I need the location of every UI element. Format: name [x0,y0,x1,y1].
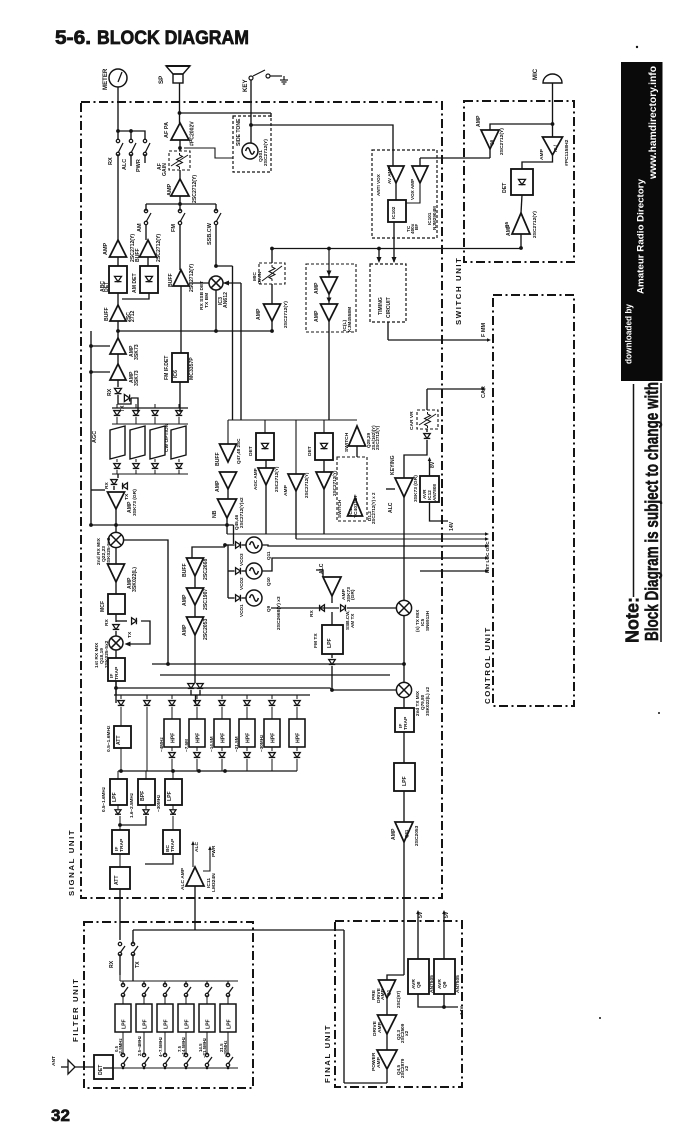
block LPF f2 [143,995,145,1004]
wire long 688 [116,688,332,690]
svg-text:DET: DET [502,182,508,193]
svg-text:MCF: MCF [100,601,106,612]
amp Q33 [110,240,127,257]
svg-text:3SK022(L): 3SK022(L) [132,567,138,592]
svg-text:2SC2053: 2SC2053 [414,825,420,846]
wire nb bus 525 [91,524,234,526]
svg-text:IC102: IC102 [391,206,396,219]
diode vco row [236,542,241,549]
svg-text:NJM2904M: NJM2904M [432,206,437,230]
wire hpf bottom bus [118,770,297,772]
amp Q31 [110,338,126,354]
switch filter out 2 [142,1053,149,1066]
dashed box anti vox [372,150,437,238]
amp VOX [412,166,428,183]
wire ic6 out [179,382,181,412]
wire het bus 664 [152,663,404,665]
svg-text:SP: SP [158,76,165,84]
switch tx filter [132,930,134,944]
svg-text:DET: DET [98,1064,104,1075]
svg-text:GAIN: GAIN [162,163,168,176]
svg-text:2SC2712(Y): 2SC2712(Y) [263,139,269,166]
svg-text:Block Diagram is subject to ch: Block Diagram is subject to change with [642,382,662,641]
wire switch merge [144,154,146,163]
svg-text:ATT: ATT [116,735,122,745]
amp Q74 mic [271,284,273,304]
svg-text:5V: 5V [444,911,450,918]
svg-text:AM TX: AM TX [350,613,355,628]
svg-text:#PC1158H2: #PC1158H2 [564,139,570,166]
diode rx tx 2 [117,474,119,478]
switch filter 1 [122,981,124,985]
svg-text:CONTROL UNIT: CONTROL UNIT [483,626,492,704]
svg-text:3SK73 (GR): 3SK73 (GR) [413,475,419,502]
svg-text:ALC AMP: ALC AMP [180,867,186,890]
switch ALC [129,139,136,155]
amp AF PA [171,123,189,140]
osc VCO2 [246,563,262,579]
svg-text:2SC2712(Y) x 2: 2SC2712(Y) x 2 [371,492,376,524]
resistor CAR VR [426,389,428,410]
amp Q36 buff [173,270,189,286]
svg-text:AMP: AMP [256,308,262,320]
svg-text:~21.5MHz: ~21.5MHz [202,1037,207,1058]
svg-text:14V: 14V [459,1006,465,1015]
wire avr 5v b [443,913,445,959]
wire junction bus 331 [117,321,119,338]
block HPF 5 [271,695,273,699]
svg-text:~21.5M: ~21.5M [234,736,239,752]
svg-text:AMP: AMP [215,480,221,492]
wire filter top bus [119,954,121,975]
key jack [249,70,282,80]
svg-text:BF: BF [414,224,419,230]
svg-text:ANT: ANT [51,1056,57,1066]
svg-text:BUFF: BUFF [215,452,221,466]
svg-text:BLOCK DIAGRAM: BLOCK DIAGRAM [97,27,249,49]
amp Q86 keying [395,478,413,497]
amp IC1 mic [543,137,563,155]
svg-text:VCO2: VCO2 [239,577,244,590]
block IC102 [395,182,397,200]
svg-text:3SK73: 3SK73 [134,344,140,360]
svg-text:TIMING: TIMING [378,297,384,315]
svg-text:2.5~4MHz: 2.5~4MHz [137,1035,142,1056]
svg-text:SN6913H: SN6913H [425,610,430,631]
wire cluster top bus [228,419,357,421]
svg-text:VOX AMP: VOX AMP [410,179,415,200]
svg-text:Q6: Q6 [489,139,494,146]
block BPF [145,771,147,779]
svg-text:AMP: AMP [182,594,188,606]
control unit border [493,295,574,706]
block timing circuit [370,264,406,322]
svg-text:ALC: ALC [388,502,394,513]
svg-text:~14.5M: ~14.5M [209,736,214,752]
wire if trap down [115,681,117,703]
osc VCO3 [246,537,262,553]
amp Q6 [481,130,499,149]
svg-text:AN7808: AN7808 [432,484,437,501]
svg-text:2SC2053: 2SC2053 [203,619,209,640]
svg-text:TX: TX [124,493,130,500]
svg-text:HPF: HPF [296,733,302,743]
switch filter out 6 [226,1053,233,1066]
svg-text:KEY: KEY [242,79,249,92]
svg-text:BUFF: BUFF [104,307,110,321]
svg-text:IC.(: IC.( [553,144,558,152]
svg-text:TRAP: TRAP [114,666,120,680]
wire q6 top [490,124,553,130]
block AVR IC12 AN7808 [420,476,439,502]
wire q5 to mic gain line [272,234,521,249]
svg-text:2SC2712(Y): 2SC2712(Y) [304,472,309,498]
svg-text:HET LOC OSC: HET LOC OSC [485,541,490,573]
svg-text:KEYING: KEYING [390,455,396,475]
block MCF [115,582,117,594]
final unit border [335,921,462,1087]
amp Q37 AF [171,179,189,196]
svg-text:CW OPTION: CW OPTION [164,423,170,452]
wire avr bottom [418,994,458,1007]
speaker SP [166,66,190,83]
wire to tx mix1 [347,607,396,609]
wire buff feed [192,547,225,558]
wire left col down [115,681,117,695]
block IF TRAP [115,650,117,658]
svg-text:TRAP: TRAP [170,838,176,852]
wire alc amp down [194,886,196,930]
svg-text:RX: RX [108,157,114,165]
note underline [633,384,635,597]
block IF TRAP tx [403,697,405,708]
dashed box side tone [233,116,271,172]
amp Q1 pre drive [387,975,404,980]
amp switch tri [349,426,366,446]
svg-text:~30MHz: ~30MHz [156,794,161,812]
svg-text:MIC: MIC [532,68,539,80]
amp Q5 [521,195,522,213]
svg-text:VCO1: VCO1 [239,604,244,617]
svg-text:AF PA: AF PA [164,122,170,138]
switch filter 6 [227,981,229,985]
wire sidetone to af [180,112,272,114]
diode row above agc [112,407,188,409]
svg-text:AMP: AMP [377,1021,383,1033]
svg-text:Q9: Q9 [266,605,271,612]
dashed box mic gain [259,263,285,284]
wire afpa [179,140,181,151]
wire avr 8v [429,460,431,476]
svg-text:HPF: HPF [221,733,227,743]
mic connector [543,74,562,83]
svg-text:MC3357P: MC3357P [189,357,195,380]
amp Q2 Q3 drive [386,998,388,1015]
svg-text:2SC2668: 2SC2668 [203,559,209,580]
amp ALC IC11 [145,854,173,864]
svg-text:2SC2712(Y): 2SC2712(Y) [192,175,198,203]
switch filter out 1 [121,1053,128,1066]
osc side tone [242,143,258,159]
svg-text:BUFF: BUFF [168,273,174,287]
svg-text:ALC: ALC [122,159,128,170]
wire afgain [179,170,181,179]
svg-text:AMP: AMP [182,624,188,636]
osc VCO1 [246,590,262,606]
wire ic3 top branch [216,265,233,267]
mixer 1st RX MIX [109,636,123,650]
signal unit border [81,102,442,898]
svg-text:LPF: LPF [206,1019,212,1029]
wire lpf to bus [332,666,396,690]
svg-text:~4MHz: ~4MHz [159,737,164,752]
block FM IF DET IC6 [180,286,182,353]
wire meter [117,87,119,131]
svg-text:BUFF: BUFF [135,248,141,262]
mixer 2nd RX MIX [108,532,123,547]
svg-text:KJM4558M: KJM4558M [347,307,353,332]
svg-text:RX: RX [309,609,315,617]
switch filter out 4 [184,1053,191,1066]
svg-text:AGC AMP: AGC AMP [253,468,258,490]
wire final out [344,1082,387,1084]
wire mix2 out right [123,540,168,664]
wire bus 695 diodes [114,694,310,696]
amp Q21 [115,547,117,564]
svg-text:SIGNAL UNIT: SIGNAL UNIT [67,829,76,896]
switch filter out 3 [163,1053,170,1066]
dashed box KJM4558N [306,264,356,332]
svg-text:TRAP: TRAP [403,716,409,730]
wires cluster verticals [265,460,267,468]
svg-text:2SC2712(Y): 2SC2712(Y) [375,425,380,450]
wire q15 down [194,605,196,617]
svg-text:~14.5MHz: ~14.5MHz [181,1036,186,1057]
svg-text:~30MHz: ~30MHz [259,734,264,752]
switch filter 2 [143,981,145,985]
wire q81 to final [403,842,405,975]
svg-text:Q11: Q11 [266,551,271,560]
switch filter out 5 [205,1053,212,1066]
svg-text:SWITCH: SWITCH [337,499,342,518]
wire het bus 675 [160,674,390,676]
block LPF b [172,771,174,779]
svg-text:LPF: LPF [164,1019,170,1029]
amp Q47 [220,472,237,489]
wire ic1 to det [522,155,553,169]
svg-text:AN7505: AN7505 [455,975,461,993]
svg-text:SSB.CW: SSB.CW [207,222,213,245]
block HPF 2 [196,695,198,699]
svg-text:ALC: ALC [319,563,325,574]
svg-text:SIDE TONE: SIDE TONE [236,118,242,146]
amp Q78 alc [323,577,341,596]
svg-text:CIRCUIT: CIRCUIT [386,296,392,318]
svg-text:downloaded by: downloaded by [624,304,634,364]
meter M1 [109,69,127,87]
block BC TRAP [163,830,180,854]
mixer 1st TX MIX IC5 [396,600,411,615]
svg-text:CAR: CAR [481,386,487,398]
amp Q4 Q5 power [386,1034,388,1050]
svg-text:HPF: HPF [246,733,252,743]
wire alc arrows [192,845,194,867]
svg-text:AV AMP: AV AMP [387,167,392,184]
svg-text:3SK73 (GR): 3SK73 (GR) [132,489,138,516]
svg-text:LPF: LPF [122,1019,128,1029]
svg-text:SWITCH UNIT: SWITCH UNIT [454,256,463,325]
block LPF f3 [164,995,166,1004]
wire side tone out [184,148,233,158]
svg-text:F MM: F MM [481,323,487,337]
wire FMM line [388,339,487,341]
svg-text:PWR: PWR [211,845,217,857]
svg-text:TX BM: TX BM [204,293,210,308]
wire third line to control [420,570,486,572]
svg-text:0.5~1.6MHz: 0.5~1.6MHz [101,786,106,812]
amp Q30 [110,364,126,380]
wire mic line to timing [378,249,380,259]
wire ic3 down [215,290,217,331]
wire amdet out [122,293,149,299]
svg-text:RX: RX [104,481,110,489]
amp Q13 buff [187,558,204,576]
svg-text:2SC(97): 2SC(97) [396,990,401,1008]
svg-text:2SC2668(Y) x3: 2SC2668(Y) x3 [276,596,282,630]
wire bus 534 539 [227,533,486,535]
wire key branch to anti vox [251,125,393,166]
svg-text:DET: DET [307,446,313,456]
svg-text:CAR VR: CAR VR [409,411,415,430]
svg-text:FILTER UNIT: FILTER UNIT [71,978,80,1042]
block DET 2 [323,420,325,433]
wire CAR line [427,388,482,390]
svg-text:LPF: LPF [402,776,408,786]
block LPF f5 [206,995,208,1004]
svg-text:2SC2712(Y): 2SC2712(Y) [189,264,195,292]
svg-text:AMP: AMP [283,484,289,496]
amp Q34 buff [145,224,147,240]
svg-text:ATT: ATT [114,875,120,885]
svg-text:NB: NB [212,510,218,518]
svg-text:AM: AM [137,223,143,232]
svg-text:AMP: AMP [314,282,320,294]
svg-text:2SC2712(Y): 2SC2712(Y) [332,470,337,496]
svg-text:HPF: HPF [171,733,177,743]
svg-text:Q8: Q8 [416,981,422,988]
dashed box IC1 TC4011BF [337,457,367,521]
svg-text:14V: 14V [449,521,455,531]
block LPF a [117,771,119,779]
wire icl out [328,321,330,420]
block HPF 4 [246,695,248,699]
mixer 2nd TX MIX [396,682,411,697]
svg-text:BPF: BPF [140,791,146,801]
wire timing down [387,322,389,340]
svg-text:3SK025-5x2: 3SK025-5x2 [106,537,112,565]
wire vco bus [227,545,229,598]
amp ICL a [321,277,338,294]
wire agc left bus [91,345,110,347]
switch RX [116,139,123,155]
wire nb out [226,518,228,534]
switch AM [145,204,147,211]
switch SSB CW [215,204,217,211]
block LPF f1 [122,995,124,1004]
svg-text:2SC2712(Y): 2SC2712(Y) [532,211,538,238]
svg-text:2SC1907: 2SC1907 [203,589,209,610]
wire att down to filter [119,889,121,940]
wire af bus [179,196,181,204]
filter unit border [84,922,253,1088]
svg-text:3SK022(L) x2: 3SK022(L) x2 [425,687,430,716]
wire tx bypass [127,621,150,644]
svg-text:2SC2712(Y)x2: 2SC2712(Y)x2 [239,497,244,528]
svg-text:TRAP: TRAP [119,838,125,852]
amp ICL b [321,304,338,321]
switch filter 5 [206,981,208,985]
svg-text:AMP: AMP [314,310,320,322]
svg-text:Q9: Q9 [442,981,448,988]
svg-text:LM324N: LM324N [211,873,217,892]
svg-text:AMP: AMP [167,183,173,196]
block ATT 2 [119,854,121,867]
block AM DET [147,257,149,266]
wire tx line to final [133,929,344,931]
svg-text:IC6: IC6 [173,370,179,378]
block DET 1 [264,420,266,433]
block LPF tx [403,732,405,763]
svg-text:LPF: LPF [185,1019,191,1029]
svg-text:Amateur Radio Directory: Amateur Radio Directory [636,178,647,294]
block ABC DET [117,257,119,266]
switch rx filter [118,942,125,955]
svg-text:2SC2712(Y): 2SC2712(Y) [283,301,289,328]
svg-text:RX: RX [109,960,115,968]
diode lpf out [331,654,333,658]
wire rx switch branches [118,131,145,140]
svg-text:1.6~2.5MHz: 1.6~2.5MHz [129,792,134,818]
wire speaker [179,83,181,123]
mixer IC3 AN612 [215,224,217,266]
svg-text:LPF: LPF [143,1019,149,1029]
svg-text:FM IF.DET: FM IF.DET [164,355,170,380]
svg-text:5-6.: 5-6. [55,27,91,49]
amp Q15 [194,576,196,588]
svg-text:x2: x2 [404,1065,409,1071]
amp Q48 buff [227,420,229,444]
amp Q51 [295,420,297,474]
svg-text:ALC: ALC [194,842,200,852]
svg-text:DET: DET [248,446,254,456]
switch unit border [464,101,574,262]
amp D1 D2 [348,498,363,516]
svg-text:~30MHz: ~30MHz [223,1040,228,1057]
svg-text:#PC2002V: #PC2002V [190,121,196,146]
svg-text:AM DET: AM DET [132,273,138,293]
block DET filter [94,1055,113,1079]
diode pair bottom [188,684,195,689]
svg-text:LPF: LPF [112,792,118,802]
scan speck [636,46,638,48]
wire keying to tx mix [403,497,405,601]
svg-text:Q5: Q5 [504,221,509,228]
wire mic gain in [271,249,273,264]
amp AV [388,166,404,183]
block AVR Q8 [408,959,429,994]
amp Q49 [258,468,274,485]
wire antivox stubs [420,157,490,159]
